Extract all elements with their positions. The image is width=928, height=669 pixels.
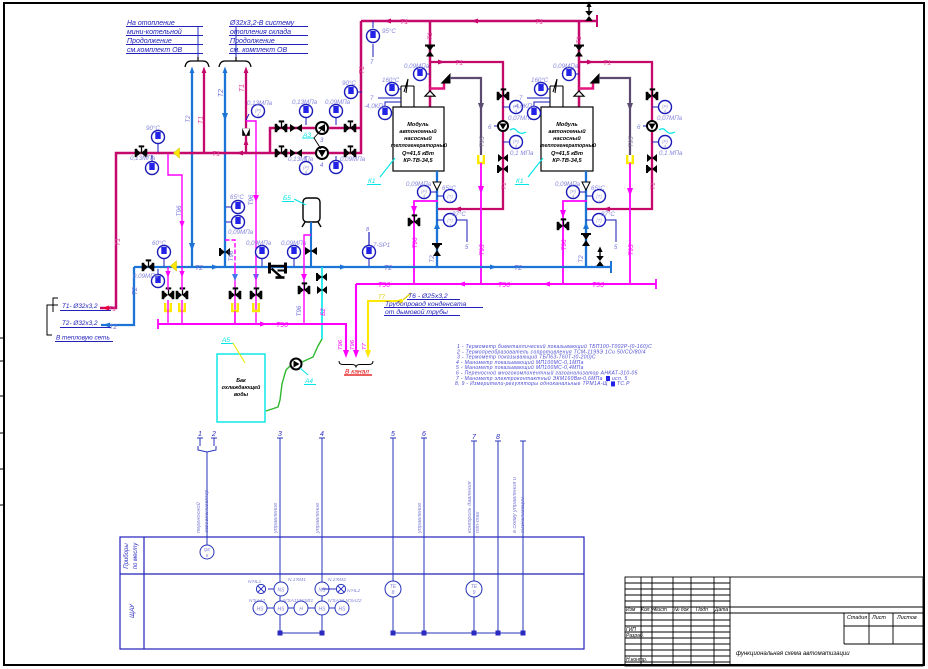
electrocontact manometer 95C wire 7 bbox=[367, 21, 397, 66]
pump A3.1 bbox=[316, 122, 328, 134]
safety valve on T1 main bbox=[585, 2, 593, 22]
svg-text:N'HL1: N'HL1 bbox=[248, 579, 262, 585]
svg-text:управление: управление bbox=[417, 503, 423, 534]
module 1 heat generator box bbox=[393, 107, 444, 171]
strainer on T2 main bbox=[270, 263, 286, 278]
flue gas line T95 module 1 bbox=[450, 78, 481, 155]
svg-text:Модуль: Модуль bbox=[556, 122, 577, 128]
svg-text:160°С: 160°С bbox=[531, 77, 549, 84]
svg-text:Т96: Т96 bbox=[338, 339, 344, 350]
pressure gauge 0.13MPa on warehouse riser bbox=[246, 100, 273, 120]
draft gauge module 2 bbox=[513, 95, 550, 120]
svg-text:по месту: по месту bbox=[133, 542, 139, 570]
manometer 0.09MPa on mini-boiler T2 riser bbox=[226, 216, 254, 237]
svg-text:95°С: 95°С bbox=[382, 28, 396, 35]
svg-text:Т1: Т1 bbox=[576, 36, 583, 44]
svg-text:Т96: Т96 bbox=[498, 282, 510, 289]
wire 3 bbox=[277, 438, 283, 633]
panel component labels bbox=[248, 577, 362, 604]
manometer 0.09MPa pump bottom row bbox=[330, 156, 366, 174]
T96 drop from warehouse T1 riser crossing T2 bbox=[253, 274, 259, 281]
svg-text:87°С: 87°С bbox=[452, 211, 466, 218]
svg-text:H: H bbox=[299, 607, 303, 613]
magnetic starter NS (KM1) bbox=[268, 582, 288, 596]
svg-text:Т2: Т2 bbox=[578, 255, 585, 263]
wire 7 bbox=[471, 441, 477, 633]
svg-text:2: 2 bbox=[211, 431, 216, 438]
A4 label bbox=[300, 368, 316, 385]
T96 tap from warehouse T2 riser bbox=[225, 240, 235, 267]
flow flag on T2 main bbox=[171, 261, 177, 271]
svg-text:автономный: автономный bbox=[548, 128, 586, 135]
svg-text:Т96: Т96 bbox=[412, 237, 419, 248]
wire 6 bbox=[421, 438, 427, 633]
svg-text:Подп: Подп bbox=[696, 607, 708, 613]
svg-text:К1: К1 bbox=[368, 178, 376, 185]
svg-text:На отопление: На отопление bbox=[127, 20, 175, 27]
svg-text:Т6 - Ø25х3,2: Т6 - Ø25х3,2 bbox=[408, 293, 448, 300]
svg-text:65°С: 65°С bbox=[591, 185, 605, 192]
svg-text:0,09МПа: 0,09МПа bbox=[246, 240, 272, 247]
riser T2 to warehouse bbox=[224, 72, 226, 267]
pump group A3 bypass piping bbox=[270, 128, 362, 153]
magnetic starter NS (KM2) bbox=[315, 582, 329, 596]
svg-text:Дата: Дата bbox=[714, 607, 728, 613]
svg-text:Т2: Т2 bbox=[195, 265, 203, 272]
svg-text:Т96: Т96 bbox=[592, 282, 604, 289]
riser T1 to mini-boiler bbox=[203, 72, 205, 153]
svg-text:0,13МПа: 0,13МПа bbox=[247, 100, 273, 107]
T96 drain collector main (left) bbox=[158, 324, 346, 352]
manometer 0.09MPa under T2 main bbox=[133, 269, 165, 288]
svg-text:воды: воды bbox=[234, 392, 249, 398]
svg-text:Продолжение: Продолжение bbox=[127, 37, 172, 45]
svg-text:переносной: переносной bbox=[195, 502, 202, 533]
svg-text:7: 7 bbox=[370, 95, 374, 102]
svg-text:Б5: Б5 bbox=[283, 195, 291, 202]
svg-text:Т95: Т95 bbox=[628, 244, 635, 255]
svg-text:Т2: Т2 bbox=[429, 255, 436, 263]
svg-text:охлаждающей: охлаждающей bbox=[222, 384, 261, 391]
svg-text:Т96: Т96 bbox=[176, 205, 183, 216]
manometer 0.09MPa module 2 outlet bbox=[555, 181, 586, 199]
module 2 heat generator box bbox=[541, 107, 593, 171]
svg-text:Т1: Т1 bbox=[359, 66, 366, 74]
svg-text:-4,0КПа: -4,0КПа bbox=[364, 103, 387, 110]
pump group valves bottom row bbox=[275, 146, 288, 157]
svg-text:N'SA21 N'SA22: N'SA21 N'SA22 bbox=[328, 598, 362, 604]
svg-text:Т96: Т96 bbox=[296, 305, 303, 316]
svg-text:Т95: Т95 bbox=[479, 136, 486, 147]
open funnel atop module 2 bbox=[574, 91, 584, 96]
svg-text:Т96: Т96 bbox=[378, 282, 390, 289]
svg-text:Т2: Т2 bbox=[218, 89, 225, 97]
svg-text:NS: NS bbox=[278, 588, 286, 594]
svg-text:7: 7 bbox=[519, 95, 523, 102]
thermometer 160C module 2 bbox=[531, 77, 550, 96]
svg-text:№ док: № док bbox=[674, 607, 689, 613]
gate valve module 2 loop top bbox=[646, 89, 659, 100]
svg-text:0,09МПа: 0,09МПа bbox=[281, 240, 307, 247]
svg-text:N'SA11'N'SB1: N'SA11'N'SB1 bbox=[283, 598, 313, 604]
svg-text:0,1 МПа: 0,1 МПа bbox=[510, 150, 534, 157]
svg-text:0,07МПа: 0,07МПа bbox=[657, 115, 683, 122]
svg-text:насосный: насосный bbox=[404, 135, 432, 142]
thermometer 90C on T1 header bbox=[146, 125, 165, 152]
manometer 0.09MPa module 1 inlet bbox=[404, 63, 430, 81]
solenoid valve module 2 inlet bbox=[574, 46, 584, 57]
manometer 0.13MPa pump top row bbox=[292, 99, 318, 125]
K1 label module 1 bbox=[367, 158, 395, 185]
manometer 0.09MPa module 1 outlet bbox=[406, 181, 437, 199]
solenoid valve module 1 inlet bbox=[425, 46, 435, 57]
thermometer 87C module 1 outlet wire 5 bbox=[437, 211, 469, 251]
svg-text:Т2- Ø32х3,2: Т2- Ø32х3,2 bbox=[62, 320, 98, 327]
T95 condensate collector main (right) bbox=[356, 284, 656, 352]
down arrows at T2 riser joints bbox=[189, 243, 195, 251]
lamp HL2 bbox=[322, 584, 346, 593]
solenoid valve module 1 outlet bbox=[432, 244, 442, 256]
gate valve on T1 header bbox=[135, 146, 148, 157]
svg-text:0,13МПа: 0,13МПа bbox=[292, 99, 318, 106]
T1 supply main from boilers bbox=[361, 20, 597, 23]
svg-text:Т1: Т1 bbox=[108, 306, 116, 313]
svg-text:4: 4 bbox=[320, 431, 324, 438]
svg-text:8: 8 bbox=[392, 590, 395, 596]
svg-text:Модуль: Модуль bbox=[407, 122, 428, 128]
svg-text:HS: HS bbox=[319, 607, 327, 613]
svg-text:Q=41,5 кВт: Q=41,5 кВт bbox=[551, 151, 583, 157]
thermometer 65C module 2 outlet bbox=[586, 185, 606, 204]
B5 label bbox=[282, 195, 306, 205]
svg-text:А4: А4 bbox=[304, 378, 313, 385]
svg-text:QE: QE bbox=[204, 547, 212, 552]
svg-text:Лист: Лист bbox=[653, 607, 667, 613]
thermometer 90C before module 1 bbox=[342, 80, 362, 99]
T1 branch to module 2 loop bbox=[579, 62, 652, 209]
svg-text:в схему управления и: в схему управления и bbox=[512, 477, 518, 533]
svg-text:Изм: Изм bbox=[626, 607, 636, 613]
svg-text:Q=41,5 кВт: Q=41,5 кВт bbox=[402, 151, 434, 157]
title block (штамп) bbox=[625, 577, 923, 666]
svg-text:0,09МПа: 0,09МПа bbox=[404, 63, 430, 70]
notes list bbox=[455, 343, 652, 387]
svg-text:насосный: насосный bbox=[553, 135, 581, 142]
manometer 0.13MPa pump bottom row bbox=[288, 156, 314, 175]
temperature controller TE8 bbox=[385, 581, 401, 597]
svg-text:1: 1 bbox=[598, 199, 600, 204]
manometer 0.13MPa under T1 header bbox=[130, 155, 159, 175]
gate valve on T2 main left bbox=[142, 260, 155, 271]
safety valve at T2 main end bbox=[596, 247, 604, 267]
svg-text:Т1: Т1 bbox=[239, 84, 246, 92]
B2 squiggle module 1 bbox=[510, 129, 526, 134]
hose connector on T95 module 2 bbox=[627, 155, 633, 163]
svg-text:6: 6 bbox=[488, 124, 492, 131]
T96 drain module 1 bbox=[414, 201, 438, 284]
flue gas line T95 module 2 bbox=[599, 78, 630, 155]
svg-text:Т1: Т1 bbox=[603, 60, 611, 67]
svg-text:HS: HS bbox=[257, 607, 265, 613]
svg-text:сигнализации: сигнализации bbox=[520, 497, 526, 533]
svg-text:N'HL2: N'HL2 bbox=[347, 588, 361, 594]
svg-text:КР-ТВ-34,5: КР-ТВ-34,5 bbox=[552, 158, 582, 164]
svg-text:Листов: Листов bbox=[896, 615, 917, 621]
svg-text:87°С: 87°С bbox=[601, 211, 615, 218]
manometer 0.09MPa module 2 inlet bbox=[553, 63, 579, 81]
svg-text:Т1: Т1 bbox=[501, 182, 508, 190]
manometer 0.07MPa module 2 loop bbox=[652, 101, 683, 123]
svg-text:ЩАУ: ЩАУ bbox=[129, 603, 136, 618]
svg-text:1: 1 bbox=[198, 431, 202, 438]
svg-text:0,13МПа: 0,13МПа bbox=[288, 156, 314, 163]
K1 label module 2 bbox=[515, 158, 543, 185]
svg-text:0,09МПа: 0,09МПа bbox=[406, 181, 432, 188]
manometer 0.09MPa pump top row bbox=[325, 99, 351, 125]
svg-text:газоанализатор: газоанализатор bbox=[204, 490, 210, 533]
T96 tap from tank line bbox=[304, 235, 311, 324]
thermometer 87C module 2 outlet wire 5 bbox=[586, 211, 618, 251]
svg-text:Трубопровод конденсата: Трубопровод конденсата bbox=[385, 300, 467, 308]
svg-text:0,1 МПа: 0,1 МПа bbox=[659, 150, 683, 157]
wire to signalling bbox=[520, 441, 526, 633]
svg-text:0,13МПа: 0,13МПа bbox=[130, 155, 156, 162]
svg-text:60°С: 60°С bbox=[152, 240, 166, 247]
svg-text:отопления склада: отопления склада bbox=[230, 28, 291, 36]
svg-text:0,09МПа: 0,09МПа bbox=[555, 181, 581, 188]
svg-text:Т1: Т1 bbox=[115, 238, 122, 246]
manometer 0.09MPa on T2 main (left of filter) bbox=[246, 240, 272, 266]
rotated wire labels bbox=[195, 477, 526, 534]
svg-text:Разраб.: Разраб. bbox=[626, 633, 644, 639]
thermometer 65C module 1 outlet bbox=[437, 185, 457, 204]
svg-text:Б2: Б2 bbox=[320, 308, 327, 316]
svg-text:65°С: 65°С bbox=[442, 185, 456, 192]
svg-text:Н.контр.: Н.контр. bbox=[626, 657, 647, 663]
manometer 0.07MPa module 1 loop bbox=[503, 101, 534, 123]
T96 drain module 2 bbox=[563, 201, 587, 284]
riser T2 to mini-boiler bbox=[191, 72, 193, 267]
open funnel atop module 1 bbox=[425, 91, 435, 96]
manometer 0.09MPa on T2 main (right of filter) bbox=[281, 240, 307, 266]
svg-text:160°С: 160°С bbox=[382, 77, 400, 84]
svg-text:см.комплект ОВ: см.комплект ОВ bbox=[127, 47, 183, 54]
manometer 0.1MPa module 2 loop bbox=[652, 136, 683, 158]
wire 1,2 twisted pair to gas analyzer bbox=[197, 438, 217, 545]
svg-text:управление: управление bbox=[273, 503, 279, 534]
text block: На отопление мини-котельной bbox=[126, 20, 203, 57]
control panel table (ЩАУ / Приборы по месту) bbox=[120, 537, 584, 649]
svg-text:90°С: 90°С bbox=[342, 80, 356, 87]
svg-text:см. комплект ОВ: см. комплект ОВ bbox=[230, 47, 287, 54]
temperature controller TE9 bbox=[466, 581, 482, 597]
svg-text:5: 5 bbox=[391, 431, 395, 438]
module 2 inlet riser bbox=[578, 21, 581, 94]
flow direction flag on T1 header bbox=[174, 148, 180, 158]
svg-text:N'SA12: N'SA12 bbox=[249, 598, 265, 604]
svg-text:0,09МПа: 0,09МПа bbox=[133, 273, 159, 280]
svg-text:1: 1 bbox=[449, 199, 451, 204]
T2 riser drain valves and hose connectors bbox=[165, 271, 170, 278]
svg-text:Приборы: Приборы bbox=[124, 543, 130, 569]
control valve on warehouse T2 riser bbox=[220, 248, 230, 256]
svg-text:N.2'КМ2: N.2'КМ2 bbox=[328, 577, 346, 583]
svg-text:функциональная схема автомат: функциональная схема автоматизации bbox=[736, 651, 850, 657]
pump A3.2 bbox=[316, 147, 328, 159]
svg-text:N.1'КМ1: N.1'КМ1 bbox=[288, 577, 306, 583]
svg-text:Т1- Ø32х3,2: Т1- Ø32х3,2 bbox=[62, 303, 98, 310]
shut-off valves module 1 loop bottom bbox=[498, 154, 508, 162]
condensate inlet from chimney (yellow) bbox=[368, 301, 403, 352]
hose connector on T95 module 1 bbox=[478, 155, 484, 163]
T1 branch to module 1 loop bbox=[430, 62, 503, 209]
svg-text:теплогенераторный: теплогенераторный bbox=[540, 142, 597, 149]
svg-text:3: 3 bbox=[278, 431, 282, 438]
thermometer 65C on mini-boiler T2 riser bbox=[226, 194, 245, 214]
gate valve module 1 loop top bbox=[497, 89, 510, 100]
svg-text:Продолжение: Продолжение bbox=[230, 37, 275, 45]
drains to channel bbox=[343, 350, 349, 358]
svg-text:9: 9 bbox=[473, 590, 476, 596]
svg-text:теплогенераторный: теплогенераторный bbox=[391, 142, 448, 149]
svg-text:В тепловую сеть: В тепловую сеть bbox=[56, 335, 110, 342]
svg-text:8, 9 - Измерители-регуляторы о: 8, 9 - Измерители-регуляторы одноканальн… bbox=[455, 381, 608, 387]
svg-text:Т2: Т2 bbox=[384, 265, 392, 272]
svg-text:мини-котельной: мини-котельной bbox=[127, 28, 182, 36]
draft gauge module 1 bbox=[364, 95, 401, 120]
svg-text:Лист: Лист bbox=[871, 615, 886, 621]
electrocontact manometer 7-SP1 on T2 bbox=[363, 227, 391, 266]
svg-text:Т1: Т1 bbox=[198, 116, 205, 124]
svg-text:7-SР1: 7-SР1 bbox=[373, 242, 390, 249]
lamp HL1 bbox=[256, 584, 265, 593]
svg-text:HS: HS bbox=[278, 607, 286, 613]
svg-text:NS: NS bbox=[319, 588, 327, 594]
svg-text:6: 6 bbox=[206, 553, 209, 558]
svg-text:Т96: Т96 bbox=[350, 339, 356, 350]
A5 label bbox=[221, 337, 245, 363]
svg-text:6: 6 bbox=[637, 124, 641, 131]
svg-text:0,09МПа: 0,09МПа bbox=[553, 63, 579, 70]
svg-text:Т1: Т1 bbox=[427, 32, 434, 40]
module 1 inlet riser bbox=[429, 21, 432, 94]
T96 drain tap from warehouse T1 riser bbox=[246, 121, 256, 267]
sampling line B2 from T2 main bbox=[321, 267, 323, 339]
bus connectors in panel bbox=[280, 632, 523, 634]
svg-text:контроль давления: контроль давления bbox=[467, 481, 473, 533]
text block: Ø32х3,2-В систему отопления склада bbox=[229, 20, 308, 57]
riser T1 to warehouse bbox=[245, 72, 247, 153]
svg-text:Ø32х3,2-В систему: Ø32х3,2-В систему bbox=[229, 20, 295, 27]
svg-text:-4,0КПа: -4,0КПа bbox=[513, 103, 536, 110]
svg-text:0,09МПа: 0,09МПа bbox=[228, 229, 254, 236]
solenoid valve module 2 outlet bbox=[581, 234, 591, 246]
thermometer 160C module 1 bbox=[382, 77, 401, 96]
svg-text:от дымовой трубы: от дымовой трубы bbox=[385, 308, 448, 316]
svg-text:Т95: Т95 bbox=[479, 244, 486, 255]
module 1 flue stack symbol bbox=[401, 79, 414, 107]
B2 squiggle module 2 bbox=[659, 129, 675, 134]
T1 main down-comer and house header bbox=[100, 21, 361, 308]
svg-text:Т96: Т96 bbox=[228, 250, 235, 261]
svg-text:90°С: 90°С bbox=[146, 125, 160, 132]
svg-text:управление: управление bbox=[315, 503, 321, 534]
svg-text:Т2: Т2 bbox=[185, 115, 192, 123]
pump group valves top row bbox=[275, 121, 288, 132]
svg-text:А5: А5 bbox=[221, 337, 230, 344]
svg-text:КР-ТВ-34,5: КР-ТВ-34,5 bbox=[403, 158, 433, 164]
svg-text:6: 6 bbox=[422, 431, 426, 438]
T2 return main bbox=[134, 266, 611, 268]
svg-text:К1: К1 bbox=[516, 178, 524, 185]
manometer 0.1MPa module 1 loop bbox=[503, 136, 534, 158]
gas meter module 2 bbox=[637, 121, 657, 131]
wire 8 bbox=[495, 441, 501, 633]
condensate pipe text block bbox=[385, 293, 467, 316]
svg-text:Т2: Т2 bbox=[514, 265, 522, 272]
valve on tank line bbox=[305, 247, 317, 255]
wire 4 bbox=[319, 438, 325, 633]
shut-off valves module 2 loop bottom bbox=[647, 154, 657, 162]
svg-text:Т7: Т7 bbox=[362, 342, 368, 350]
module 2 outlet to T2 bbox=[585, 171, 587, 267]
svg-text:Т2: Т2 bbox=[132, 287, 139, 295]
brace for network exits bbox=[47, 298, 58, 335]
thermometer 60C on T2 main bbox=[152, 240, 171, 266]
svg-text:Т96: Т96 bbox=[561, 239, 568, 250]
gas meter module 1 bbox=[488, 121, 508, 131]
svg-text:0,09МПа: 0,09МПа bbox=[340, 156, 366, 163]
svg-text:8: 8 bbox=[496, 434, 500, 441]
svg-text:HS: HS bbox=[339, 607, 347, 613]
svg-text:Бак: Бак bbox=[236, 378, 246, 384]
water sampling cooler box A5 bbox=[217, 354, 265, 422]
svg-text:Т1: Т1 bbox=[650, 182, 657, 190]
cooler drain hose (green) bbox=[266, 339, 322, 411]
switches HS row bbox=[253, 601, 349, 615]
expansion tank B5 bbox=[302, 198, 321, 267]
svg-text:Т1: Т1 bbox=[212, 151, 220, 158]
check valve on warehouse T1 riser bbox=[242, 128, 250, 136]
svg-text:Стадия: Стадия bbox=[847, 615, 867, 621]
module 2 flue stack symbol bbox=[550, 79, 563, 107]
svg-text:Т1: Т1 bbox=[400, 19, 408, 26]
svg-text:min-max: min-max bbox=[475, 511, 481, 533]
svg-text:Т1: Т1 bbox=[455, 60, 463, 67]
svg-text:ТС.Р: ТС.Р bbox=[617, 381, 630, 387]
panel wire numbers bbox=[198, 431, 500, 441]
T96 drain tap near T1 header valve bbox=[168, 154, 182, 267]
fold tick marks on left border bbox=[0, 338, 4, 505]
vent flag module 2 bbox=[590, 73, 600, 84]
svg-text:0,09МПа: 0,09МПа bbox=[325, 99, 351, 106]
bracket over mini-boiler risers bbox=[185, 61, 209, 67]
gas analyzer QE6 circle bbox=[200, 545, 214, 559]
vent flag module 1 bbox=[441, 73, 451, 84]
wire 5 bbox=[390, 438, 396, 633]
svg-text:Т1: Т1 bbox=[535, 19, 543, 26]
sampling pump A4 bbox=[291, 359, 302, 370]
module 1 outlet to T2 bbox=[436, 171, 438, 267]
svg-text:65°С: 65°С bbox=[230, 194, 244, 201]
svg-text:Т95: Т95 bbox=[628, 136, 635, 147]
svg-text:автономный: автономный bbox=[399, 128, 437, 135]
bracket over warehouse risers bbox=[219, 61, 251, 67]
svg-text:Т96: Т96 bbox=[276, 322, 288, 329]
